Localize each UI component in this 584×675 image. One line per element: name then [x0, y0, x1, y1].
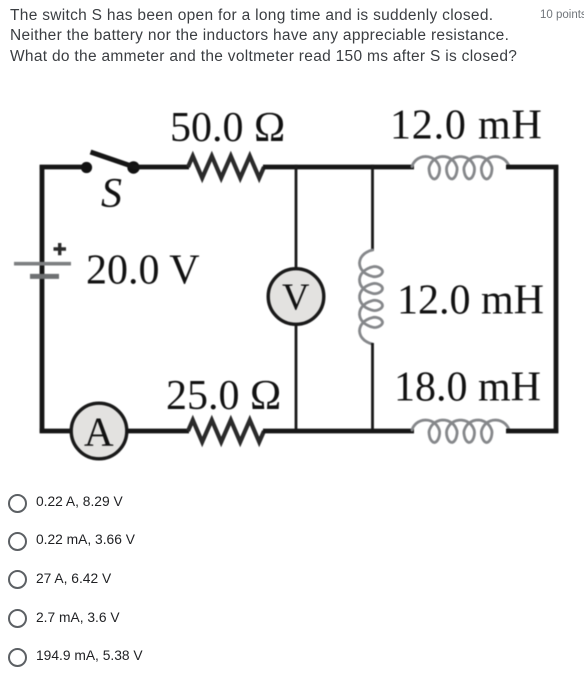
wire ammeter to resistor — [126, 429, 189, 434]
resistor 50.0 ohm — [188, 156, 264, 178]
inductor 18.0 mH — [412, 420, 509, 443]
inductor 12.0 mH middle — [360, 250, 383, 344]
resistor 25.0 ohm — [188, 420, 264, 442]
ammeter A — [71, 403, 127, 459]
svg-text:V: V — [282, 277, 310, 319]
svg-text:18.0 mH: 18.0 mH — [394, 365, 541, 411]
svg-text:25.0 Ω: 25.0 Ω — [166, 373, 281, 419]
wire switch to resistor — [134, 165, 190, 170]
wire voltmeter branch lower — [295, 322, 298, 433]
svg-text:12.0 mH: 12.0 mH — [390, 103, 543, 149]
wire resistor to bottom inductor — [263, 429, 414, 434]
svg-text:50.0 Ω: 50.0 Ω — [170, 105, 285, 151]
voltmeter V — [268, 269, 324, 325]
switch S — [81, 152, 140, 174]
wire left vertical — [40, 165, 45, 433]
wire bottom inductor to bottom-right corner — [506, 429, 558, 434]
inductor 12.0 mH top — [412, 157, 509, 180]
svg-text:20.0 V: 20.0 V — [86, 248, 200, 294]
wire inductor branch upper — [371, 165, 374, 251]
wire voltmeter branch upper — [295, 165, 298, 270]
svg-text:S: S — [101, 171, 122, 217]
wire resistor to inductor lead — [263, 165, 414, 170]
wire top from left corner to switch — [40, 165, 88, 170]
wire right vertical — [554, 165, 559, 433]
svg-text:12.0 mH: 12.0 mH — [397, 278, 544, 324]
wire inductor to top-right corner — [506, 165, 558, 170]
wire bottom-left corner to ammeter — [40, 429, 73, 434]
svg-text:A: A — [84, 409, 114, 455]
battery 20.0 V — [14, 243, 71, 276]
wire inductor branch lower — [371, 343, 374, 433]
